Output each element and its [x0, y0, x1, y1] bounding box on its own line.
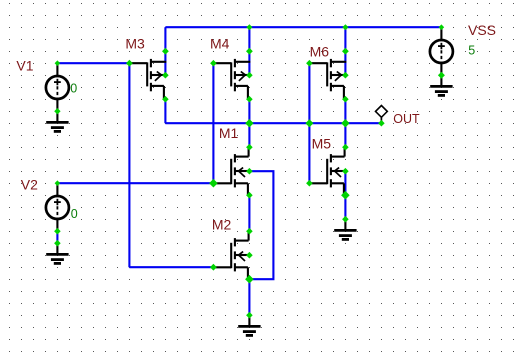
value 0 of V1: [70, 82, 77, 96]
node V2 ground: [54, 240, 61, 247]
label M4: [210, 36, 230, 52]
voltage source V1: [46, 63, 69, 111]
svg-text:M4: M4: [210, 36, 230, 52]
node M5 gate: [306, 180, 313, 187]
node M3 body: [162, 72, 169, 79]
svg-text:M1: M1: [219, 125, 239, 141]
node out rail M4 junction: [245, 119, 253, 127]
wire out rail: [165, 122, 381, 124]
wire to M2 gate: [129, 266, 213, 268]
label M6: [310, 43, 330, 59]
node M2 ground: [246, 312, 253, 319]
node M4 drain: [246, 48, 253, 55]
node M4 rail tap: [246, 24, 252, 30]
node M1 body: [246, 168, 253, 175]
label VSS: [468, 22, 496, 38]
wire top supply rail: [165, 26, 441, 28]
transistor M4 (PMOS symbol): [213, 59, 250, 99]
node M3 gate junction: [126, 60, 133, 67]
wire M6 gate to M5 gate: [308, 63, 310, 183]
node M2 body: [246, 252, 253, 259]
wire M2 source to ground: [248, 279, 250, 315]
svg-text:M2: M2: [212, 216, 232, 232]
ground below M5: [334, 219, 356, 239]
node out rail M5 gate junction: [305, 119, 313, 127]
wire rail to M1 drain: [248, 123, 250, 147]
node M1 source: [246, 192, 253, 199]
svg-text:0: 0: [70, 82, 77, 96]
node M4 body: [246, 72, 253, 79]
node M5 body: [342, 168, 349, 175]
node M2 drain: [246, 228, 253, 235]
node V1 plus terminal: [55, 60, 61, 66]
transistor M6 (PMOS symbol): [309, 59, 346, 99]
ground below VSS: [430, 75, 452, 95]
node M4 gate: [210, 60, 217, 67]
label M3: [125, 36, 145, 52]
node V2 plus terminal: [55, 180, 61, 186]
wire V2 minus to ground: [56, 231, 58, 243]
node M6 gate: [306, 60, 313, 67]
node M1 gate junction: [209, 179, 218, 188]
ground below V1: [46, 111, 68, 131]
node out rail M6 junction: [341, 119, 349, 127]
svg-text:M5: M5: [312, 136, 332, 152]
transistor M3 (PMOS symbol): [129, 59, 166, 99]
wire M5 body to source: [344, 171, 346, 195]
transistor M1 (NMOS symbol): [213, 147, 249, 195]
wire rail to M5 drain: [344, 123, 346, 147]
transistor M5 (NMOS symbol): [309, 147, 345, 195]
wire M1 body to M2 source: [249, 171, 273, 279]
voltage source VSS: [430, 27, 453, 75]
svg-text:M6: M6: [310, 43, 330, 59]
wire M5 source to ground: [344, 195, 346, 219]
svg-text:V2: V2: [21, 176, 38, 192]
wire M4 drain column: [248, 27, 250, 75]
wire V1 to M3 gate: [57, 62, 129, 64]
node VSS minus terminal: [438, 72, 445, 79]
label OUT: [393, 112, 420, 126]
wire V2 to M1 gate: [57, 182, 213, 184]
wire M6 source down: [344, 99, 346, 123]
node M3 drain: [162, 48, 169, 55]
svg-text:V1: V1: [16, 58, 33, 74]
ground below V2: [46, 243, 68, 263]
node VSS plus terminal: [439, 24, 445, 30]
wire M6 drain column: [344, 27, 346, 75]
wire M3 source to out rail: [164, 99, 166, 123]
svg-text:OUT: OUT: [393, 112, 420, 126]
node M1 drain: [246, 144, 253, 151]
voltage source V2: [46, 183, 69, 231]
wire M1 source to M2 drain: [248, 195, 250, 231]
node M6 body: [342, 72, 349, 79]
node M4 source: [246, 96, 253, 103]
label V2: [21, 176, 38, 192]
svg-text:M3: M3: [125, 36, 145, 52]
svg-text:5: 5: [468, 44, 475, 58]
node M3 source: [162, 96, 169, 103]
node M2 source junction: [245, 275, 254, 284]
node V2 minus terminal: [54, 228, 61, 235]
node M6 source: [342, 96, 349, 103]
node V1 minus terminal: [54, 108, 60, 114]
value 0 of V2: [71, 207, 78, 221]
node M6 drain: [342, 48, 349, 55]
label M1: [219, 125, 239, 141]
output terminal OUT: [376, 106, 388, 124]
node M5 drain: [342, 144, 349, 151]
label M5: [312, 136, 332, 152]
node M6 rail tap: [342, 24, 348, 30]
wire M4 gate to M1 gate: [212, 63, 214, 183]
node M5 ground: [342, 216, 349, 223]
label V1: [16, 58, 33, 74]
value 5 of VSS: [468, 44, 475, 58]
wire M3 gate down: [128, 63, 130, 267]
node OUT terminal: [378, 120, 385, 127]
svg-text:0: 0: [71, 207, 78, 221]
label M2: [212, 216, 232, 232]
node M5 source junction: [341, 191, 350, 200]
transistor M2 (NMOS symbol): [213, 231, 249, 279]
wire M3 drain column: [164, 27, 166, 75]
wire M4 source down: [248, 99, 250, 123]
node M2 gate: [210, 264, 217, 271]
svg-text:VSS: VSS: [468, 22, 496, 38]
ground below M2: [238, 315, 260, 335]
